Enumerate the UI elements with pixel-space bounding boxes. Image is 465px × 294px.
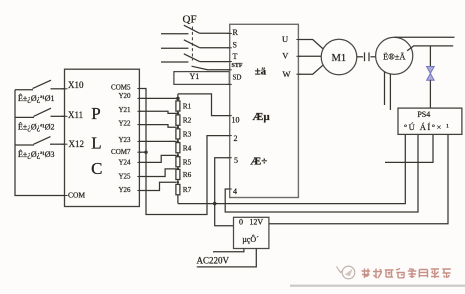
watermark logo bbox=[337, 266, 355, 279]
svg-text:Ê±¿Ø¿ª¹Ø2: Ê±¿Ø¿ª¹Ø2 bbox=[18, 122, 55, 132]
svg-text:X10: X10 bbox=[68, 80, 84, 90]
breaker QF linkage dashed bbox=[191, 27, 193, 61]
svg-text:5: 5 bbox=[234, 156, 238, 165]
svg-text:µçÔ´: µçÔ´ bbox=[242, 234, 259, 244]
svg-text:Y24: Y24 bbox=[118, 159, 131, 167]
svg-text:Y22: Y22 bbox=[118, 119, 131, 127]
pipe top line 2 bbox=[407, 46, 453, 51]
junction COM7 dot bbox=[144, 151, 147, 154]
svg-text:STF: STF bbox=[232, 63, 243, 69]
svg-text:M1: M1 bbox=[332, 53, 347, 64]
switch S1 (time switch 1) bbox=[15, 80, 65, 90]
svg-text:COM7: COM7 bbox=[111, 148, 131, 156]
resistor labels bbox=[183, 102, 192, 195]
svg-text:Y20: Y20 bbox=[118, 92, 131, 100]
resistor ladder chain wire bbox=[177, 94, 179, 204]
inverter U2 box bbox=[230, 24, 299, 197]
svg-text:COM: COM bbox=[68, 190, 85, 199]
wire inverter terminal 5 down bbox=[215, 158, 230, 204]
wire common rail left bbox=[15, 90, 65, 196]
wire U to motor bbox=[298, 40, 322, 49]
svg-text:V: V bbox=[282, 50, 289, 60]
svg-text:0: 0 bbox=[239, 218, 243, 227]
wire inverter terminal 4 to PS4 pin2 bbox=[225, 134, 418, 213]
resistor R4 bbox=[176, 143, 180, 153]
switch S3 (time switch 3) bbox=[15, 137, 65, 145]
svg-text:Ê±¿Ø¿ª¹Ø3: Ê±¿Ø¿ª¹Ø3 bbox=[18, 149, 55, 159]
wire V to motor bbox=[298, 55, 321, 57]
resistor R6 bbox=[176, 169, 180, 179]
svg-text:R: R bbox=[233, 28, 239, 37]
node main bottom junction bbox=[213, 202, 217, 206]
wire chain top to inverter terminal 10 bbox=[178, 94, 229, 116]
pressure sensor PS4 box bbox=[398, 108, 462, 134]
wire valve top bbox=[429, 46, 431, 67]
bottom border line bbox=[290, 285, 465, 287]
svg-text:2: 2 bbox=[234, 134, 238, 143]
contact Y1 switch blade bbox=[192, 66, 209, 70]
wire Y25 bbox=[139, 169, 176, 177]
wire Y21 bbox=[139, 111, 176, 113]
svg-text:R5: R5 bbox=[183, 157, 192, 166]
svg-text:COM5: COM5 bbox=[111, 83, 131, 91]
power supply box 0-12V bbox=[234, 217, 269, 248]
wire bottom bus to PS4 pin1 bbox=[178, 134, 405, 204]
wire AC input 2 bbox=[197, 249, 256, 267]
svg-text:PS4: PS4 bbox=[417, 110, 430, 119]
wire junction to power supply 0 bbox=[215, 204, 234, 226]
inverter ticks left bbox=[227, 34, 231, 190]
coupling shaft symbol bbox=[357, 52, 376, 61]
pipe top line 1 bbox=[395, 36, 455, 38]
svg-text:X11: X11 bbox=[68, 110, 83, 120]
resistor R5 bbox=[176, 157, 180, 167]
resistor R7 bbox=[176, 184, 180, 194]
wire PS4 pin3 stub bbox=[385, 134, 433, 163]
wire W to motor bbox=[298, 65, 322, 74]
wire Y26 bbox=[139, 182, 176, 190]
junction chain top dot bbox=[176, 97, 180, 101]
svg-text:R2: R2 bbox=[183, 116, 192, 125]
svg-text:Y23: Y23 bbox=[118, 136, 131, 144]
svg-text:Y25: Y25 bbox=[118, 173, 131, 181]
svg-text:10: 10 bbox=[232, 116, 240, 125]
breaker QF pole R bbox=[161, 25, 230, 34]
svg-text:Æ÷: Æ÷ bbox=[250, 156, 267, 168]
svg-text:AC220V: AC220V bbox=[197, 255, 230, 265]
svg-text:R1: R1 bbox=[183, 102, 192, 111]
pipe pump outlet left bbox=[384, 72, 386, 105]
pipe pump outlet right bbox=[389, 74, 391, 110]
svg-text:P: P bbox=[91, 104, 100, 123]
svg-text:C: C bbox=[91, 159, 102, 178]
svg-text:Y26: Y26 bbox=[118, 186, 131, 194]
breaker QF pole S bbox=[161, 40, 230, 48]
svg-text:QF: QF bbox=[183, 13, 197, 25]
wire valve to PS4 bbox=[429, 80, 431, 108]
svg-text:U: U bbox=[282, 34, 288, 44]
valve symbol bbox=[427, 67, 435, 81]
junction dots ladder bbox=[177, 112, 180, 183]
svg-text:R3: R3 bbox=[183, 130, 192, 139]
svg-text:±ä: ±ä bbox=[255, 65, 267, 77]
svg-text:Æµ: Æµ bbox=[252, 111, 270, 123]
svg-text:L: L bbox=[91, 134, 101, 153]
svg-text:°Ú ÁÍ°× ¹: °Ú ÁÍ°× ¹ bbox=[404, 122, 450, 132]
wire Y23 bbox=[139, 140, 176, 142]
resistor R3 bbox=[176, 129, 180, 139]
breaker QF pole T bbox=[161, 54, 230, 62]
wire Y20 bbox=[139, 97, 178, 99]
svg-text:S: S bbox=[233, 40, 237, 49]
wire STF bbox=[209, 69, 230, 71]
PLC U1 box bbox=[65, 69, 140, 206]
PLC labels bbox=[68, 80, 131, 199]
wire Y24 bbox=[139, 155, 176, 162]
wire AC input 1 bbox=[213, 249, 244, 252]
svg-text:W: W bbox=[283, 69, 291, 79]
svg-text:T: T bbox=[233, 52, 238, 61]
svg-text:X12: X12 bbox=[69, 139, 85, 149]
wire COM5/COM7 to inverter terminal 2 bbox=[139, 89, 229, 215]
inverter ticks right bbox=[296, 40, 300, 75]
PLC terminal ticks left bbox=[62, 89, 68, 196]
svg-text:SD: SD bbox=[233, 73, 242, 81]
relay contact Y1 box bbox=[174, 72, 229, 85]
svg-text:R4: R4 bbox=[183, 143, 192, 152]
svg-text:R6: R6 bbox=[183, 170, 192, 179]
watermark text blocks bbox=[362, 269, 451, 279]
wire COM7 bbox=[139, 151, 146, 153]
PLC terminal ticks right bbox=[137, 89, 141, 191]
resistor R2 bbox=[176, 115, 180, 125]
svg-text:12V: 12V bbox=[249, 218, 263, 227]
wire Y22 bbox=[139, 125, 176, 128]
wire power supply 12V to PS4 pin4 bbox=[269, 134, 448, 224]
svg-text:Ë®±Ã: Ë®±Ã bbox=[383, 51, 406, 61]
svg-text:R7: R7 bbox=[183, 185, 192, 194]
inverter terminal labels bbox=[232, 28, 291, 196]
switch S2 (time switch 2) bbox=[15, 108, 65, 117]
svg-text:Ê±¿Ø¿ª¹Ø1: Ê±¿Ø¿ª¹Ø1 bbox=[18, 93, 55, 103]
svg-text:Y21: Y21 bbox=[118, 106, 131, 114]
resistor R1 bbox=[176, 101, 180, 111]
motor M1 circle bbox=[321, 39, 357, 75]
svg-text:Y1: Y1 bbox=[190, 72, 200, 81]
svg-text:4: 4 bbox=[233, 187, 237, 196]
pump circle bbox=[376, 37, 413, 74]
